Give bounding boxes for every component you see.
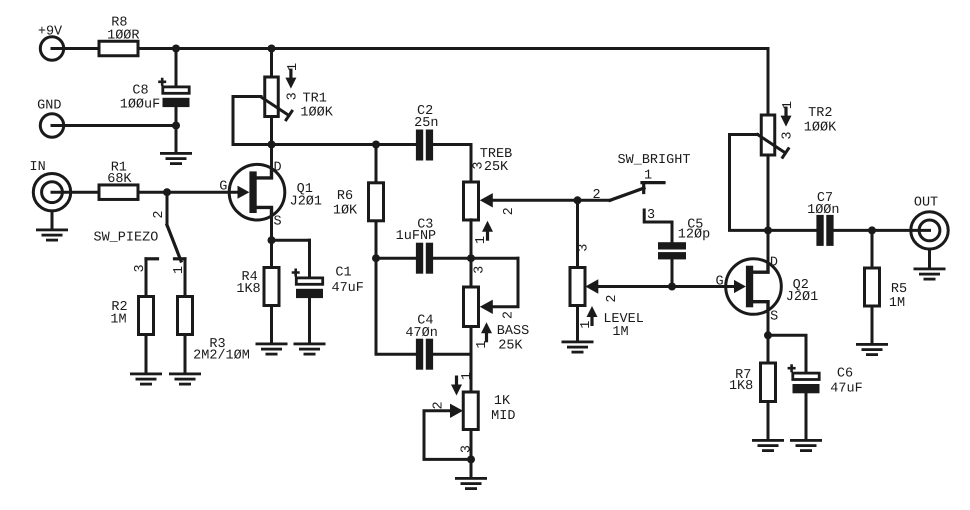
svg-text:R5: R5 bbox=[891, 282, 907, 297]
potentiometer BASS bbox=[464, 287, 479, 327]
TR2 pin 1 arrow bbox=[781, 116, 792, 127]
svg-text:25K: 25K bbox=[484, 160, 509, 175]
junction rail/C8 bbox=[172, 45, 180, 53]
svg-text:2: 2 bbox=[502, 207, 517, 215]
ground C6 bbox=[790, 439, 822, 452]
wire R4 to ground bbox=[270, 306, 273, 343]
wire C3 row right bbox=[433, 257, 518, 260]
svg-text:+9V: +9V bbox=[38, 24, 63, 39]
svg-text:3: 3 bbox=[286, 92, 301, 100]
ground OUT jack bbox=[914, 268, 946, 281]
svg-text:3: 3 bbox=[473, 266, 488, 274]
wire MID wiper loop bbox=[424, 411, 471, 460]
resistor R3 bbox=[178, 297, 193, 335]
svg-text:2: 2 bbox=[605, 294, 620, 302]
junction C3 row left bbox=[372, 254, 380, 262]
svg-text:D: D bbox=[770, 256, 778, 271]
trimmer TR1 bbox=[261, 77, 292, 120]
junction Q2 source node bbox=[764, 331, 772, 339]
BASS pin 1 arrow bbox=[481, 322, 492, 333]
resistor R5 bbox=[865, 268, 880, 306]
svg-text:1: 1 bbox=[579, 321, 594, 329]
svg-text:TR1: TR1 bbox=[303, 91, 327, 106]
LEVEL wiper arrow bbox=[585, 279, 598, 293]
svg-text:1uFNP: 1uFNP bbox=[396, 229, 437, 244]
wire drain row to Q1 drain bbox=[270, 145, 273, 171]
svg-text:1K8: 1K8 bbox=[236, 282, 260, 297]
svg-text:1ØØuF: 1ØØuF bbox=[120, 98, 161, 113]
svg-text:G: G bbox=[219, 180, 227, 195]
svg-text:IN: IN bbox=[29, 160, 45, 175]
svg-text:1M: 1M bbox=[612, 325, 628, 340]
svg-text:47Øn: 47Øn bbox=[405, 326, 437, 341]
ground LEVEL bbox=[562, 341, 594, 354]
svg-text:S: S bbox=[770, 309, 778, 324]
capacitor C4 bbox=[416, 339, 423, 370]
svg-text:OUT: OUT bbox=[914, 196, 938, 211]
MID pin 1 arrow bbox=[451, 385, 462, 396]
MID wiper arrow bbox=[450, 404, 463, 418]
wire OUT jack sleeve bbox=[928, 249, 931, 268]
wire SW_BRIGHT pin3 to C5 bbox=[644, 210, 672, 242]
svg-text:2: 2 bbox=[432, 401, 447, 409]
svg-text:1: 1 bbox=[474, 236, 489, 244]
wire TR1 wiper bracket bbox=[233, 97, 261, 145]
wire TREB wiper to switch bbox=[492, 199, 611, 202]
ground IN jack bbox=[36, 229, 68, 242]
resistor R7 bbox=[761, 363, 776, 402]
svg-text:2: 2 bbox=[592, 188, 600, 203]
resistor R2 bbox=[139, 297, 154, 335]
svg-text:C8: C8 bbox=[132, 84, 148, 99]
ground R2 bbox=[130, 373, 162, 386]
capacitor C3 bbox=[416, 243, 423, 274]
junction Q1 source node bbox=[268, 236, 276, 244]
wire C4 branch down bbox=[376, 258, 416, 354]
capacitor C8 bbox=[158, 78, 189, 107]
svg-text:1ØK: 1ØK bbox=[333, 204, 358, 219]
wire R4 top bbox=[270, 240, 273, 267]
capacitor C6 bbox=[788, 364, 820, 393]
svg-text:1ØØK: 1ØØK bbox=[300, 106, 333, 121]
wire MID bottom bbox=[470, 430, 473, 460]
wire IN jack sleeve bbox=[51, 211, 54, 229]
wire C7 to OUT bbox=[834, 229, 930, 232]
svg-text:47uF: 47uF bbox=[830, 381, 862, 396]
svg-text:3: 3 bbox=[780, 131, 795, 139]
ground MID bbox=[455, 477, 487, 490]
power terminal +9V bbox=[38, 24, 64, 60]
svg-text:1: 1 bbox=[475, 341, 490, 349]
wire LEVEL top bbox=[576, 200, 579, 267]
wire TREB row to BASS bbox=[470, 258, 473, 287]
junction TR2/drain node bbox=[764, 226, 772, 234]
wire switch to R2 bbox=[145, 259, 148, 297]
svg-text:1: 1 bbox=[286, 63, 301, 71]
capacitor C7 bbox=[816, 215, 823, 246]
capacitor C1 bbox=[292, 269, 323, 299]
TREB wiper arrow bbox=[480, 193, 493, 207]
svg-text:J2Ø1: J2Ø1 bbox=[290, 194, 322, 209]
junction switch/LEVEL node bbox=[574, 196, 582, 204]
wire BASS wiper loop bbox=[492, 258, 519, 307]
svg-text:G: G bbox=[716, 274, 724, 289]
wire C8 to ground node bbox=[175, 107, 178, 152]
wire IN to R1 bbox=[52, 191, 99, 194]
svg-text:1ØØR: 1ØØR bbox=[107, 28, 139, 43]
wire TR1 bottom to Q1 drain bbox=[270, 117, 273, 145]
wire R1 to Q1 gate bbox=[138, 191, 239, 194]
resistor R1 bbox=[99, 185, 138, 200]
wire Q2 drain up bbox=[767, 230, 770, 263]
wire Q2 source down bbox=[767, 310, 770, 335]
svg-text:TR2: TR2 bbox=[808, 106, 832, 121]
ground R7 bbox=[752, 439, 784, 452]
svg-text:J2Ø1: J2Ø1 bbox=[786, 290, 818, 305]
wire C2 to TREB bbox=[433, 145, 471, 183]
potentiometer MID bbox=[463, 392, 478, 430]
potentiometer TREB bbox=[464, 182, 479, 220]
svg-text:MID: MID bbox=[491, 409, 515, 424]
wire R3 to ground bbox=[184, 335, 187, 373]
svg-text:R6: R6 bbox=[337, 189, 353, 204]
resistor R6 bbox=[369, 183, 384, 221]
junction TREB bottom bbox=[467, 254, 475, 262]
junction R5 top bbox=[868, 226, 876, 234]
potentiometer LEVEL bbox=[570, 268, 585, 306]
wire LEVEL to ground bbox=[576, 306, 579, 341]
svg-text:SW_BRIGHT: SW_BRIGHT bbox=[618, 153, 691, 168]
svg-text:47uF: 47uF bbox=[331, 281, 363, 296]
svg-text:1K8: 1K8 bbox=[729, 379, 753, 394]
wire R6 bottom bbox=[375, 221, 378, 258]
resistor R8 bbox=[99, 41, 138, 56]
ground R3 bbox=[169, 373, 201, 386]
ground R5 bbox=[856, 343, 888, 356]
ground R4 bbox=[256, 343, 288, 356]
svg-text:D: D bbox=[274, 161, 282, 176]
TREB pin 1 arrow bbox=[482, 221, 493, 232]
input jack IN bbox=[29, 160, 70, 211]
svg-text:1M: 1M bbox=[110, 313, 126, 328]
svg-text:S: S bbox=[274, 215, 282, 230]
wire +9V to R8 bbox=[52, 47, 99, 50]
ground terminal GND bbox=[37, 99, 64, 138]
svg-text:25K: 25K bbox=[498, 339, 523, 354]
svg-text:1M: 1M bbox=[889, 296, 905, 311]
trimmer TR2 bbox=[758, 115, 789, 157]
capacitor C2 bbox=[416, 130, 423, 161]
wire R5 to ground bbox=[871, 306, 874, 343]
wire C1 to ground bbox=[308, 298, 311, 343]
junction MID bottom bbox=[467, 455, 475, 463]
wire MID to ground bbox=[470, 459, 473, 477]
wire C6 to ground bbox=[805, 393, 808, 439]
svg-text:1ØØK: 1ØØK bbox=[804, 120, 837, 135]
resistor R4 bbox=[264, 268, 279, 306]
wire TR2 bottom bbox=[767, 155, 770, 230]
svg-text:2: 2 bbox=[502, 311, 517, 319]
ground C1 bbox=[294, 343, 326, 356]
wire source node to R7 bbox=[767, 335, 770, 363]
svg-text:GND: GND bbox=[37, 99, 61, 114]
svg-text:1K: 1K bbox=[494, 394, 511, 409]
wire R5 top lead bbox=[871, 230, 874, 268]
wire drain row to C2 bbox=[233, 143, 416, 146]
wire C1 top bbox=[308, 240, 311, 277]
ground C8 bbox=[160, 152, 192, 165]
wire drain node to C7 bbox=[768, 229, 816, 232]
svg-text:3: 3 bbox=[576, 244, 591, 252]
wire rail down to TR2 bbox=[767, 49, 770, 116]
wire TREB bottom lead bbox=[470, 220, 473, 258]
junction C5/gate row bbox=[668, 283, 676, 291]
switch SW_PIEZO bbox=[146, 192, 185, 261]
svg-text:BASS: BASS bbox=[497, 324, 529, 339]
wire source node to C1 bbox=[272, 239, 310, 242]
svg-text:25n: 25n bbox=[414, 116, 438, 131]
capacitor C5 bbox=[658, 242, 686, 249]
switch SW_BRIGHT bbox=[610, 183, 664, 201]
wire R7 to ground bbox=[767, 402, 770, 440]
wire +9V rail bbox=[138, 47, 768, 50]
wire GND to C8 node bbox=[52, 124, 176, 127]
wire LEVEL wiper to Q2 gate bbox=[597, 285, 734, 288]
svg-text:C6: C6 bbox=[837, 366, 853, 381]
svg-text:1: 1 bbox=[781, 101, 796, 109]
wire switch to R3 bbox=[184, 259, 187, 297]
svg-text:2: 2 bbox=[152, 210, 167, 218]
junction R6 top bbox=[372, 141, 380, 149]
svg-text:12Øp: 12Øp bbox=[678, 228, 710, 243]
wire R6 top lead bbox=[375, 145, 378, 183]
junction TR1/drain row bbox=[268, 141, 276, 149]
transistor Q2 bbox=[726, 259, 782, 315]
wire C3 row left bbox=[376, 257, 416, 260]
svg-text:68K: 68K bbox=[107, 172, 132, 187]
wire TR2 wiper bracket bbox=[730, 135, 769, 231]
wire C8 drop bbox=[175, 49, 178, 87]
svg-text:1: 1 bbox=[460, 372, 475, 380]
output jack OUT bbox=[911, 196, 948, 249]
LEVEL pin 1 arrow bbox=[587, 306, 598, 317]
wire R2 to ground bbox=[145, 335, 148, 373]
svg-text:2M2/1ØM: 2M2/1ØM bbox=[193, 349, 250, 364]
wire source node to C6 bbox=[768, 335, 806, 372]
junction GND/C8 bbox=[172, 122, 180, 130]
wire Q1 source bbox=[270, 216, 273, 240]
svg-text:1: 1 bbox=[644, 169, 652, 184]
wire TR1 top bbox=[270, 49, 273, 78]
wire C4 to BASS line bbox=[433, 353, 471, 356]
svg-text:1ØØn: 1ØØn bbox=[807, 203, 839, 218]
wire BASS bottom to MID bbox=[470, 327, 473, 393]
BASS wiper arrow bbox=[480, 300, 493, 314]
TR1 pin 1 arrow bbox=[285, 78, 296, 89]
node IN junction bbox=[163, 188, 171, 196]
wire C5 to gate row bbox=[671, 259, 674, 286]
svg-text:SW_PIEZO: SW_PIEZO bbox=[93, 230, 158, 245]
junction rail/TR1 bbox=[268, 45, 276, 53]
svg-text:C1: C1 bbox=[335, 266, 351, 281]
transistor Q1 bbox=[229, 164, 285, 220]
